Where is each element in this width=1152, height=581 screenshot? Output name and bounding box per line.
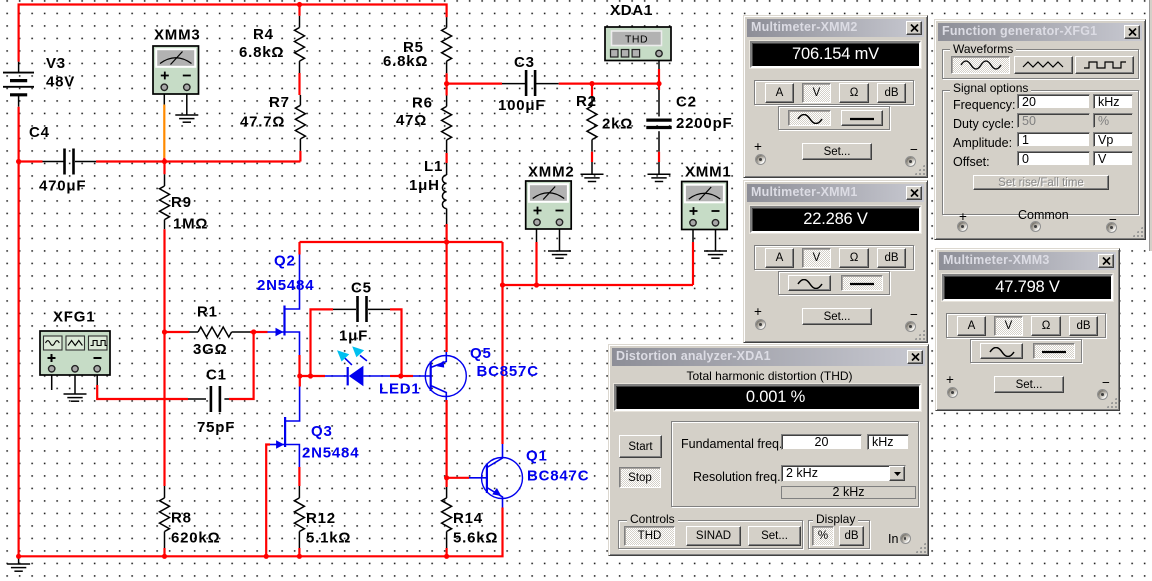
- inductor L1 1uH: [442, 175, 446, 209]
- wire: XMM1 plus lead: [692, 242, 694, 285]
- svg-text:47Ω: 47Ω: [396, 112, 427, 129]
- svg-text:2200pF: 2200pF: [676, 115, 733, 132]
- ground at XFG1: [64, 393, 87, 395]
- wire: XMM2 minus to ground: [559, 229, 561, 251]
- svg-text:R8: R8: [171, 510, 192, 527]
- node: LED anode-side junctions: [297, 373, 302, 378]
- svg-text:XFG1: XFG1: [53, 309, 95, 326]
- node: C4 left junction: [16, 159, 21, 164]
- resistor R4 6.8kOhm: [297, 2, 302, 7]
- svg-text:XMM2: XMM2: [528, 164, 575, 181]
- svg-text:1μH: 1μH: [409, 177, 440, 194]
- svg-text:R12: R12: [306, 510, 336, 527]
- svg-text:LED1: LED1: [379, 381, 421, 398]
- ground at C2: [648, 173, 671, 175]
- svg-text:48V: 48V: [46, 74, 75, 91]
- instrument panel Multimeter-XMM1: [743, 180, 928, 343]
- resistor R1 3GOhm: [165, 331, 190, 333]
- wire: left rail V3 to bottom rail: [18, 107, 20, 557]
- svg-text:47.7Ω: 47.7Ω: [240, 114, 285, 131]
- capacitor C2 2200pF: [658, 84, 660, 90]
- node: mid junction at L1 bottom: [444, 239, 449, 244]
- wire: XFG1 minus to C1: [96, 375, 98, 385]
- transistor Q1 BC847C NPN: [482, 458, 523, 499]
- wire: Q1 base lead: [447, 477, 469, 479]
- svg-text:R2: R2: [576, 93, 597, 110]
- svg-text:75pF: 75pF: [197, 419, 235, 436]
- wire: Q2 drain riser: [298, 242, 300, 255]
- svg-text:XMM3: XMM3: [154, 27, 201, 44]
- svg-text:620kΩ: 620kΩ: [171, 530, 220, 547]
- svg-text:470μF: 470μF: [39, 178, 86, 195]
- svg-text:2kΩ: 2kΩ: [602, 116, 633, 133]
- svg-text:2N5484: 2N5484: [257, 277, 314, 294]
- wire: right riser to Q1 collector: [501, 242, 503, 444]
- transistor Q3 2N5484 JFET: [299, 376, 301, 387]
- svg-text:R7: R7: [269, 94, 290, 111]
- node: R1 left junction: [162, 329, 167, 334]
- svg-text:1μF: 1μF: [339, 328, 368, 345]
- wire: Q5 emitter riser: [446, 242, 448, 352]
- instrument icon XMM3: [153, 46, 199, 94]
- resistor R2 2kOhm: [591, 84, 593, 96]
- svg-text:C2: C2: [676, 94, 697, 111]
- svg-text:L1: L1: [424, 158, 443, 175]
- capacitor C5 1uF: [311, 309, 334, 376]
- svg-text:R6: R6: [412, 95, 433, 112]
- ground at XMM3: [175, 114, 198, 116]
- svg-text:BC847C: BC847C: [527, 468, 589, 485]
- ground at XMM2: [548, 250, 571, 252]
- svg-text:R1: R1: [197, 304, 218, 321]
- svg-text:C5: C5: [351, 280, 372, 297]
- ground at bottom-left: [18, 556, 20, 564]
- svg-text:Q3: Q3: [311, 423, 333, 440]
- resistor R5 6.8kOhm: [446, 17, 448, 27]
- svg-text:R14: R14: [453, 510, 483, 527]
- right window edge sliver: [1149, 0, 1152, 251]
- instrument icon XMM2: [526, 181, 572, 229]
- wire: Q5 collector to R14 node: [446, 400, 448, 478]
- svg-text:6.8kΩ: 6.8kΩ: [239, 44, 284, 61]
- LED light arrows: [345, 358, 352, 365]
- svg-text:R9: R9: [171, 194, 192, 211]
- svg-text:2N5484: 2N5484: [302, 445, 359, 462]
- svg-text:C1: C1: [206, 367, 227, 384]
- svg-text:C4: C4: [29, 124, 50, 141]
- wire: Q3 source to R12: [298, 467, 300, 486]
- wire: R4 to R7: [298, 73, 300, 95]
- instrument panel Distortion analyzer-XDA1: [608, 344, 929, 556]
- wire: XMM3 plus lead (orange): [163, 94, 165, 105]
- capacitor C3 100uF: [447, 82, 502, 84]
- function generator icon XFG1: [40, 331, 110, 375]
- svg-text:5.1kΩ: 5.1kΩ: [306, 530, 351, 547]
- battery V3: [18, 62, 20, 73]
- wire: L1 to mid junction: [446, 224, 448, 242]
- wire: bottom rail: [19, 508, 503, 557]
- svg-text:XMM1: XMM1: [685, 164, 732, 181]
- svg-text:5.6kΩ: 5.6kΩ: [453, 530, 498, 547]
- wire: to Q2 gate: [254, 331, 268, 333]
- svg-text:3GΩ: 3GΩ: [193, 341, 227, 358]
- wire: Q3 gate to bottom rail: [266, 445, 270, 557]
- svg-text:XDA1: XDA1: [610, 2, 653, 19]
- node: meters junction: [500, 282, 505, 287]
- distortion analyzer icon XDA1: [605, 27, 671, 61]
- wire: C4 to R7 net: [96, 160, 300, 162]
- transistor Q2 2N5484 JFET: [268, 331, 285, 333]
- resistor R7 47.7Ohm: [299, 95, 301, 105]
- resistor R14 5.6kOhm: [446, 478, 448, 487]
- wire: LED net: [300, 375, 325, 377]
- node: XDA1/C2 junction: [656, 81, 661, 86]
- svg-text:1MΩ: 1MΩ: [173, 216, 208, 233]
- wire: R9 to R8 vertical net: [163, 229, 165, 486]
- svg-text:THD: THD: [625, 34, 648, 46]
- resistor R9 1MOhm: [163, 162, 165, 175]
- capacitor C4 470uF: [19, 160, 43, 162]
- node: R1/C1/gate junction: [251, 329, 256, 334]
- wire: XMM2 plus lead: [535, 242, 537, 285]
- diode LED1: [325, 375, 348, 377]
- resistor R6 47Ohm: [446, 84, 448, 96]
- node: Q5 base junction: [398, 373, 403, 378]
- svg-text:R4: R4: [253, 26, 274, 43]
- svg-text:100μF: 100μF: [498, 97, 545, 114]
- wire: XFG1 plus stub: [51, 375, 53, 390]
- ground at XMM1: [704, 250, 727, 252]
- wire: LED to Q5 base: [390, 375, 401, 377]
- instrument panel Function generator-XFG1: [934, 19, 1146, 240]
- wire: R6 to L1: [446, 153, 448, 163]
- node: R5/R6/C3 junction: [446, 73, 448, 83]
- wire: Q2 source to LED node: [298, 355, 300, 376]
- wire: XMM3 minus lead to ground: [186, 94, 188, 115]
- instrument panel Multimeter-XMM3: [935, 248, 1120, 411]
- wire: XMM1 minus to ground: [715, 230, 717, 252]
- wire: horizontal net y=242: [300, 241, 503, 243]
- svg-text:6.8kΩ: 6.8kΩ: [383, 53, 428, 70]
- svg-text:Q5: Q5: [470, 345, 492, 362]
- ground at R2: [581, 173, 604, 175]
- wire: XDA1 input lead: [658, 69, 660, 84]
- svg-text:BC857C: BC857C: [477, 363, 539, 380]
- capacitor C1 75pF: [188, 398, 206, 400]
- resistor R12 5.1kOhm: [298, 486, 300, 498]
- node: R2 junction: [589, 81, 594, 86]
- transistor Q5 BC857C PNP: [425, 356, 466, 397]
- instrument icon XMM1: [682, 182, 728, 230]
- svg-text:C3: C3: [514, 54, 535, 71]
- node: bottom rail junctions: [162, 554, 167, 559]
- svg-text:V3: V3: [46, 55, 66, 72]
- node: R14/Q1 base junction: [444, 475, 449, 480]
- resistor R8 620kOhm: [164, 486, 166, 498]
- wire: C1 to R1 junction: [229, 332, 254, 399]
- svg-text:Q1: Q1: [526, 448, 548, 465]
- wire: top rail from V3 to R5: [19, 5, 447, 62]
- node: R9 top junction: [162, 159, 167, 164]
- wire: meters net y=285: [503, 284, 694, 286]
- instrument panel Multimeter-XMM2: [743, 15, 928, 178]
- wire: XFG1 common to ground: [74, 375, 76, 394]
- svg-text:Q2: Q2: [274, 253, 296, 270]
